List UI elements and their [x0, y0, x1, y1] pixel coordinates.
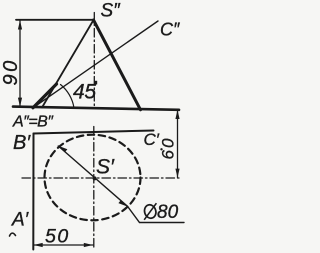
horizontal centre line of circle (dash-dot): [22, 177, 182, 179]
degree mark of 45: [94, 81, 97, 85]
svg-text:80: 80: [157, 202, 179, 223]
arrowhead 60 top: [175, 110, 179, 119]
arrowhead phi80 lower-right: [118, 201, 128, 207]
stray pencil mark bottom-left: [10, 233, 16, 236]
dimension line 50: [34, 244, 94, 246]
arrowhead phi80 upper-left: [58, 146, 68, 152]
svg-text:A″=B″: A″=B″: [12, 114, 54, 131]
extension line from apex S" to 90-dimension: [16, 19, 94, 21]
cone left generatrix (front view): [42, 20, 94, 108]
axis of cone front view (dash-dot): [93, 13, 95, 108]
arrowhead 90 top: [18, 20, 22, 29]
diameter line phi80 through circle: [58, 146, 127, 206]
top edge of horizontal-projection construction line: [34, 131, 154, 134]
arrowhead 50 left: [34, 243, 43, 247]
line C" (front projection of line through A,B,C): [33, 21, 158, 108]
dimension line 90: [19, 21, 21, 107]
svg-text:A′: A′: [11, 210, 30, 231]
svg-text:60: 60: [159, 137, 178, 160]
thick 45-degree segment from A"=B": [33, 84, 57, 108]
base line (ground line of front view): [13, 107, 179, 110]
svg-text:45: 45: [73, 80, 96, 103]
svg-text:S′: S′: [96, 156, 115, 179]
vertical centre line of circle (dash-dot): [93, 127, 95, 250]
svg-text:B′: B′: [13, 132, 31, 154]
dimension line 60: [177, 110, 179, 178]
arrowhead 60 bottom: [175, 169, 179, 178]
svg-text:C″: C″: [160, 20, 180, 40]
svg-text:S″: S″: [101, 0, 122, 21]
arrowhead 90 bottom: [18, 98, 22, 107]
cone right generatrix thick (front view): [94, 20, 141, 110]
label phi80: drawn diameter symbol: [143, 203, 158, 220]
left edge construction line (extends to 50-dim): [32, 134, 34, 250]
svg-text:50: 50: [45, 226, 70, 248]
junction dot at circle centre: [93, 176, 97, 180]
angle arc 45 degrees: [61, 85, 75, 108]
ink speck right of C': [160, 148, 162, 150]
arrowhead 50 right: [84, 243, 93, 247]
base circle of cone, dashed (top view): [45, 135, 141, 221]
svg-text:C′: C′: [144, 130, 160, 149]
leader line phi80: [128, 206, 185, 222]
svg-text:90: 90: [0, 58, 22, 85]
